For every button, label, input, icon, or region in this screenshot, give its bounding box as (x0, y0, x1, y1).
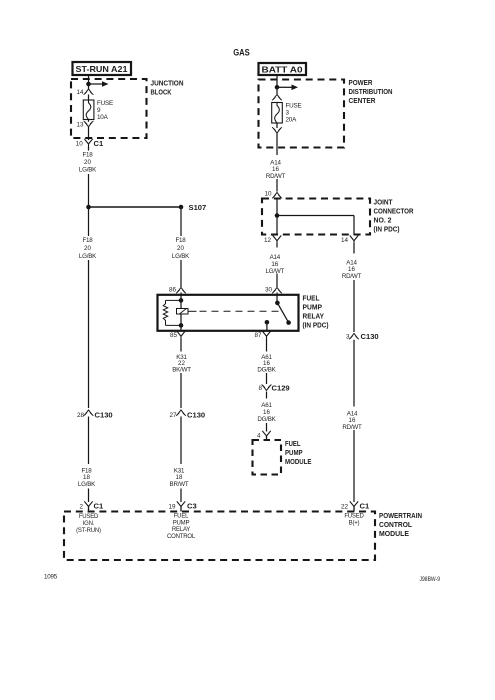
svg-text:16: 16 (271, 261, 278, 268)
wire fuse to pin 13 (88, 120, 90, 122)
relay coil zigzag (163, 300, 181, 325)
pin 13 (76, 121, 93, 128)
node PDC splice (275, 85, 280, 90)
svg-text:19: 19 (168, 503, 176, 510)
svg-text:14: 14 (76, 89, 84, 96)
diagram code J98BW-9 (420, 576, 441, 583)
svg-text:LG/BK: LG/BK (78, 481, 96, 488)
svg-text:RELAY: RELAY (303, 311, 325, 320)
power distribution center label (349, 78, 393, 105)
wire label F18 20 LG/BK (upper left) (79, 151, 97, 173)
svg-text:RD/WT: RD/WT (342, 273, 362, 280)
svg-text:GAS: GAS (233, 48, 250, 59)
svg-text:20: 20 (84, 245, 91, 252)
svg-text:JOINT: JOINT (374, 197, 393, 206)
fuel pump module box (253, 440, 282, 475)
PCM pin 22 function label (344, 514, 364, 527)
svg-text:F18: F18 (175, 237, 186, 244)
wire pin 2 into PCM (88, 507, 90, 512)
wire pin 22 into PCM (353, 507, 355, 512)
svg-text:FUSED: FUSED (79, 514, 99, 520)
wire label F18 18 LG/BK (78, 467, 96, 488)
svg-text:C129: C129 (272, 384, 290, 393)
svg-text:1095: 1095 (44, 574, 58, 581)
powertrain control module box (64, 512, 375, 561)
joint connector no. 2 box (262, 199, 370, 235)
wire fuse 3 to bottom terminal (276, 123, 278, 128)
pin 10 (joint connector) (264, 190, 281, 198)
svg-text:FUEL: FUEL (303, 293, 320, 302)
connector C1 pin 10 (junction block) (76, 139, 104, 148)
joint connector no. 2 label (374, 197, 415, 233)
label box BATT A0 (259, 63, 307, 75)
junction block box (71, 79, 147, 138)
PCM pin 2 function label (76, 514, 101, 534)
svg-text:(IN PDC): (IN PDC) (303, 320, 329, 329)
svg-text:LG/BK: LG/BK (79, 167, 97, 174)
node joint connector splice (275, 213, 280, 218)
arrow to other circuits (89, 81, 109, 87)
wire S107 to relay pin 86 (180, 207, 182, 287)
svg-text:DG/BK: DG/BK (257, 416, 276, 423)
svg-text:F18: F18 (82, 237, 93, 244)
svg-text:28: 28 (77, 412, 85, 419)
relay pin 30 (265, 287, 282, 294)
svg-text:20: 20 (84, 159, 91, 166)
svg-text:87: 87 (254, 332, 262, 339)
svg-text:ST-RUN A21: ST-RUN A21 (76, 65, 128, 74)
pin 14 (joint connector) (341, 236, 358, 245)
relay pin 87 (254, 331, 270, 340)
svg-text:30: 30 (265, 287, 273, 294)
fuse 3 top terminal (272, 94, 282, 100)
svg-text:BATT A0: BATT A0 (262, 65, 304, 74)
svg-text:2: 2 (79, 503, 83, 510)
power distribution center box (259, 80, 345, 148)
svg-text:B(+): B(+) (349, 521, 360, 527)
pin 12 (264, 236, 281, 245)
svg-text:A14: A14 (270, 254, 281, 261)
svg-text:BLOCK: BLOCK (151, 88, 173, 97)
relay switch common (275, 293, 280, 306)
svg-text:C1: C1 (360, 502, 370, 511)
svg-text:C130: C130 (187, 410, 205, 419)
wire pin 14 to fuse (88, 95, 90, 101)
svg-text:(ST-RUN): (ST-RUN) (76, 528, 101, 534)
svg-text:C3: C3 (187, 502, 197, 511)
PCM pin 19 function label (167, 514, 196, 540)
pin 4 (fuel pump module) (257, 431, 271, 440)
relay switch blade (277, 303, 291, 325)
svg-text:CONTROL: CONTROL (167, 534, 196, 540)
relay switch contact 87 (265, 320, 270, 331)
svg-text:RELAY: RELAY (172, 527, 190, 533)
svg-text:4: 4 (257, 433, 261, 440)
svg-text:DG/BK: DG/BK (257, 367, 276, 374)
svg-text:13: 13 (76, 121, 84, 128)
svg-text:85: 85 (170, 332, 178, 339)
connector C130 pin 28 (77, 410, 113, 419)
wire C130 to PCM pin 19 (180, 417, 182, 503)
wire C130 to PCM pin 22 (353, 340, 355, 502)
svg-text:JUNCTION: JUNCTION (151, 79, 184, 88)
wire C129 to fuel pump module (266, 392, 268, 432)
svg-text:DISTRIBUTION: DISTRIBUTION (349, 87, 393, 96)
fuse 3 element (272, 103, 283, 124)
svg-text:FUEL: FUEL (174, 514, 189, 520)
wire label F18 20 LG/BK (below S107 right) (172, 237, 190, 260)
wire pin 13 to C1 (88, 127, 90, 140)
svg-text:9: 9 (97, 107, 101, 114)
svg-text:10A: 10A (97, 114, 109, 121)
wire pin 14 to C130 (353, 244, 355, 333)
fuel pump module label (285, 439, 312, 466)
svg-text:14: 14 (341, 237, 349, 244)
wire into joint connector (276, 198, 278, 216)
wire label K31 22 BK/WT (172, 354, 191, 374)
svg-text:S107: S107 (189, 203, 207, 212)
relay actuator dashed link (188, 310, 280, 312)
wire S107 down left column (88, 207, 90, 408)
wire joint connector down (276, 216, 278, 236)
wire label K31 18 BR/WT (170, 467, 189, 488)
svg-text:PUMP: PUMP (285, 448, 303, 457)
svg-text:IGN.: IGN. (83, 521, 95, 527)
relay pin 86 (169, 287, 186, 294)
pin 19 connector C3 (PCM) (168, 501, 196, 510)
svg-text:MODULE: MODULE (379, 529, 409, 538)
wire joint connector branch right (277, 216, 354, 236)
junction block label (151, 79, 184, 97)
wire BATT A0 to fuse 3 (276, 75, 278, 94)
svg-text:LG/BK: LG/BK (172, 253, 190, 260)
wire label A14 16 RD/WT (lower) (342, 410, 362, 431)
wire pin 4 into module (266, 436, 268, 440)
svg-text:RD/WT: RD/WT (266, 173, 286, 180)
wire ST-RUN A21 to fuse 9 (88, 75, 90, 89)
relay coil node top (179, 298, 184, 303)
svg-text:CENTER: CENTER (349, 96, 377, 105)
svg-text:RD/WT: RD/WT (342, 424, 362, 431)
fuse 3 bottom terminal (272, 127, 282, 133)
wire relay 87 to C129 (266, 339, 268, 384)
pin 2 connector C1 (PCM) (79, 501, 103, 510)
svg-text:3: 3 (286, 110, 290, 117)
relay coil wire (180, 293, 182, 331)
title GAS (233, 48, 250, 59)
svg-text:20A: 20A (286, 117, 298, 124)
svg-text:FUSED: FUSED (344, 514, 364, 520)
svg-text:BK/WT: BK/WT (172, 367, 191, 374)
fuel pump relay label (303, 293, 329, 329)
svg-text:22: 22 (341, 503, 349, 510)
fuse 3 value label (286, 103, 302, 124)
svg-text:POWER: POWER (349, 78, 374, 87)
powertrain control module label (379, 511, 422, 538)
svg-text:C130: C130 (361, 332, 379, 341)
fuse 9 value label (97, 100, 113, 121)
splice S107 (86, 203, 206, 212)
node junction block splice (86, 82, 91, 87)
svg-text:27: 27 (169, 412, 177, 419)
relay coil element box (177, 309, 189, 315)
svg-text:MODULE: MODULE (285, 457, 312, 466)
wire label A14 16 RD/WT (PDC) (266, 159, 286, 180)
svg-text:PUMP: PUMP (303, 302, 323, 311)
svg-text:BR/WT: BR/WT (170, 481, 189, 488)
svg-text:PUMP: PUMP (173, 520, 190, 526)
fuel pump relay box (158, 295, 299, 331)
svg-text:8: 8 (258, 385, 262, 392)
svg-text:CONNECTOR: CONNECTOR (374, 206, 415, 215)
svg-text:10: 10 (76, 141, 84, 148)
wire PDC to joint connector (276, 179, 278, 192)
svg-text:86: 86 (169, 287, 177, 294)
wire fuse 3 out of PDC (276, 133, 278, 155)
svg-text:POWERTRAIN: POWERTRAIN (379, 511, 422, 520)
fuse 9 element (83, 100, 94, 120)
wire C1 to S107 (88, 147, 90, 207)
relay coil node bottom (179, 323, 184, 328)
svg-text:LG/WT: LG/WT (266, 268, 285, 275)
svg-text:FUSE: FUSE (286, 103, 302, 110)
wire C130 to PCM pin 2 (88, 417, 90, 503)
svg-text:20: 20 (177, 245, 184, 252)
svg-text:(IN PDC): (IN PDC) (374, 224, 400, 233)
svg-text:NO. 2: NO. 2 (374, 215, 392, 224)
svg-text:10: 10 (264, 190, 272, 197)
relay pin 85 (170, 331, 185, 340)
svg-text:LG/BK: LG/BK (79, 253, 97, 260)
wire pin 19 into PCM (180, 507, 182, 512)
wire pin 12 to relay pin 30 (276, 244, 278, 288)
svg-text:FUEL: FUEL (285, 439, 301, 448)
wire relay 85 to C130 (180, 339, 182, 408)
svg-text:12: 12 (264, 237, 272, 244)
pin 14 (76, 89, 93, 96)
svg-text:C1: C1 (94, 139, 104, 148)
connector C130 pin 3 (346, 332, 379, 341)
svg-text:F18: F18 (82, 151, 93, 158)
arrow to other circuits (PDC) (277, 85, 298, 91)
pin 22 connector C1 (PCM) (341, 501, 370, 510)
label box ST-RUN A21 (73, 62, 132, 75)
svg-text:CONTROL: CONTROL (379, 520, 412, 529)
svg-text:FUSE: FUSE (97, 100, 113, 107)
wire label F18 20 LG/BK (below S107 left) (79, 237, 97, 260)
wire label A61 16 DG/BK (upper) (257, 354, 276, 374)
wire label A14 16 LG/WT (266, 254, 285, 275)
connector C130 pin 27 (169, 410, 205, 419)
svg-text:C130: C130 (95, 410, 113, 419)
connector C129 (258, 384, 289, 393)
svg-text:J98BW-9: J98BW-9 (420, 576, 441, 583)
page number 1095 (44, 574, 58, 581)
svg-text:C1: C1 (94, 502, 104, 511)
wire label A14 16 RD/WT (joint connector) (342, 259, 362, 280)
wire label A61 16 DG/BK (lower) (257, 402, 276, 423)
